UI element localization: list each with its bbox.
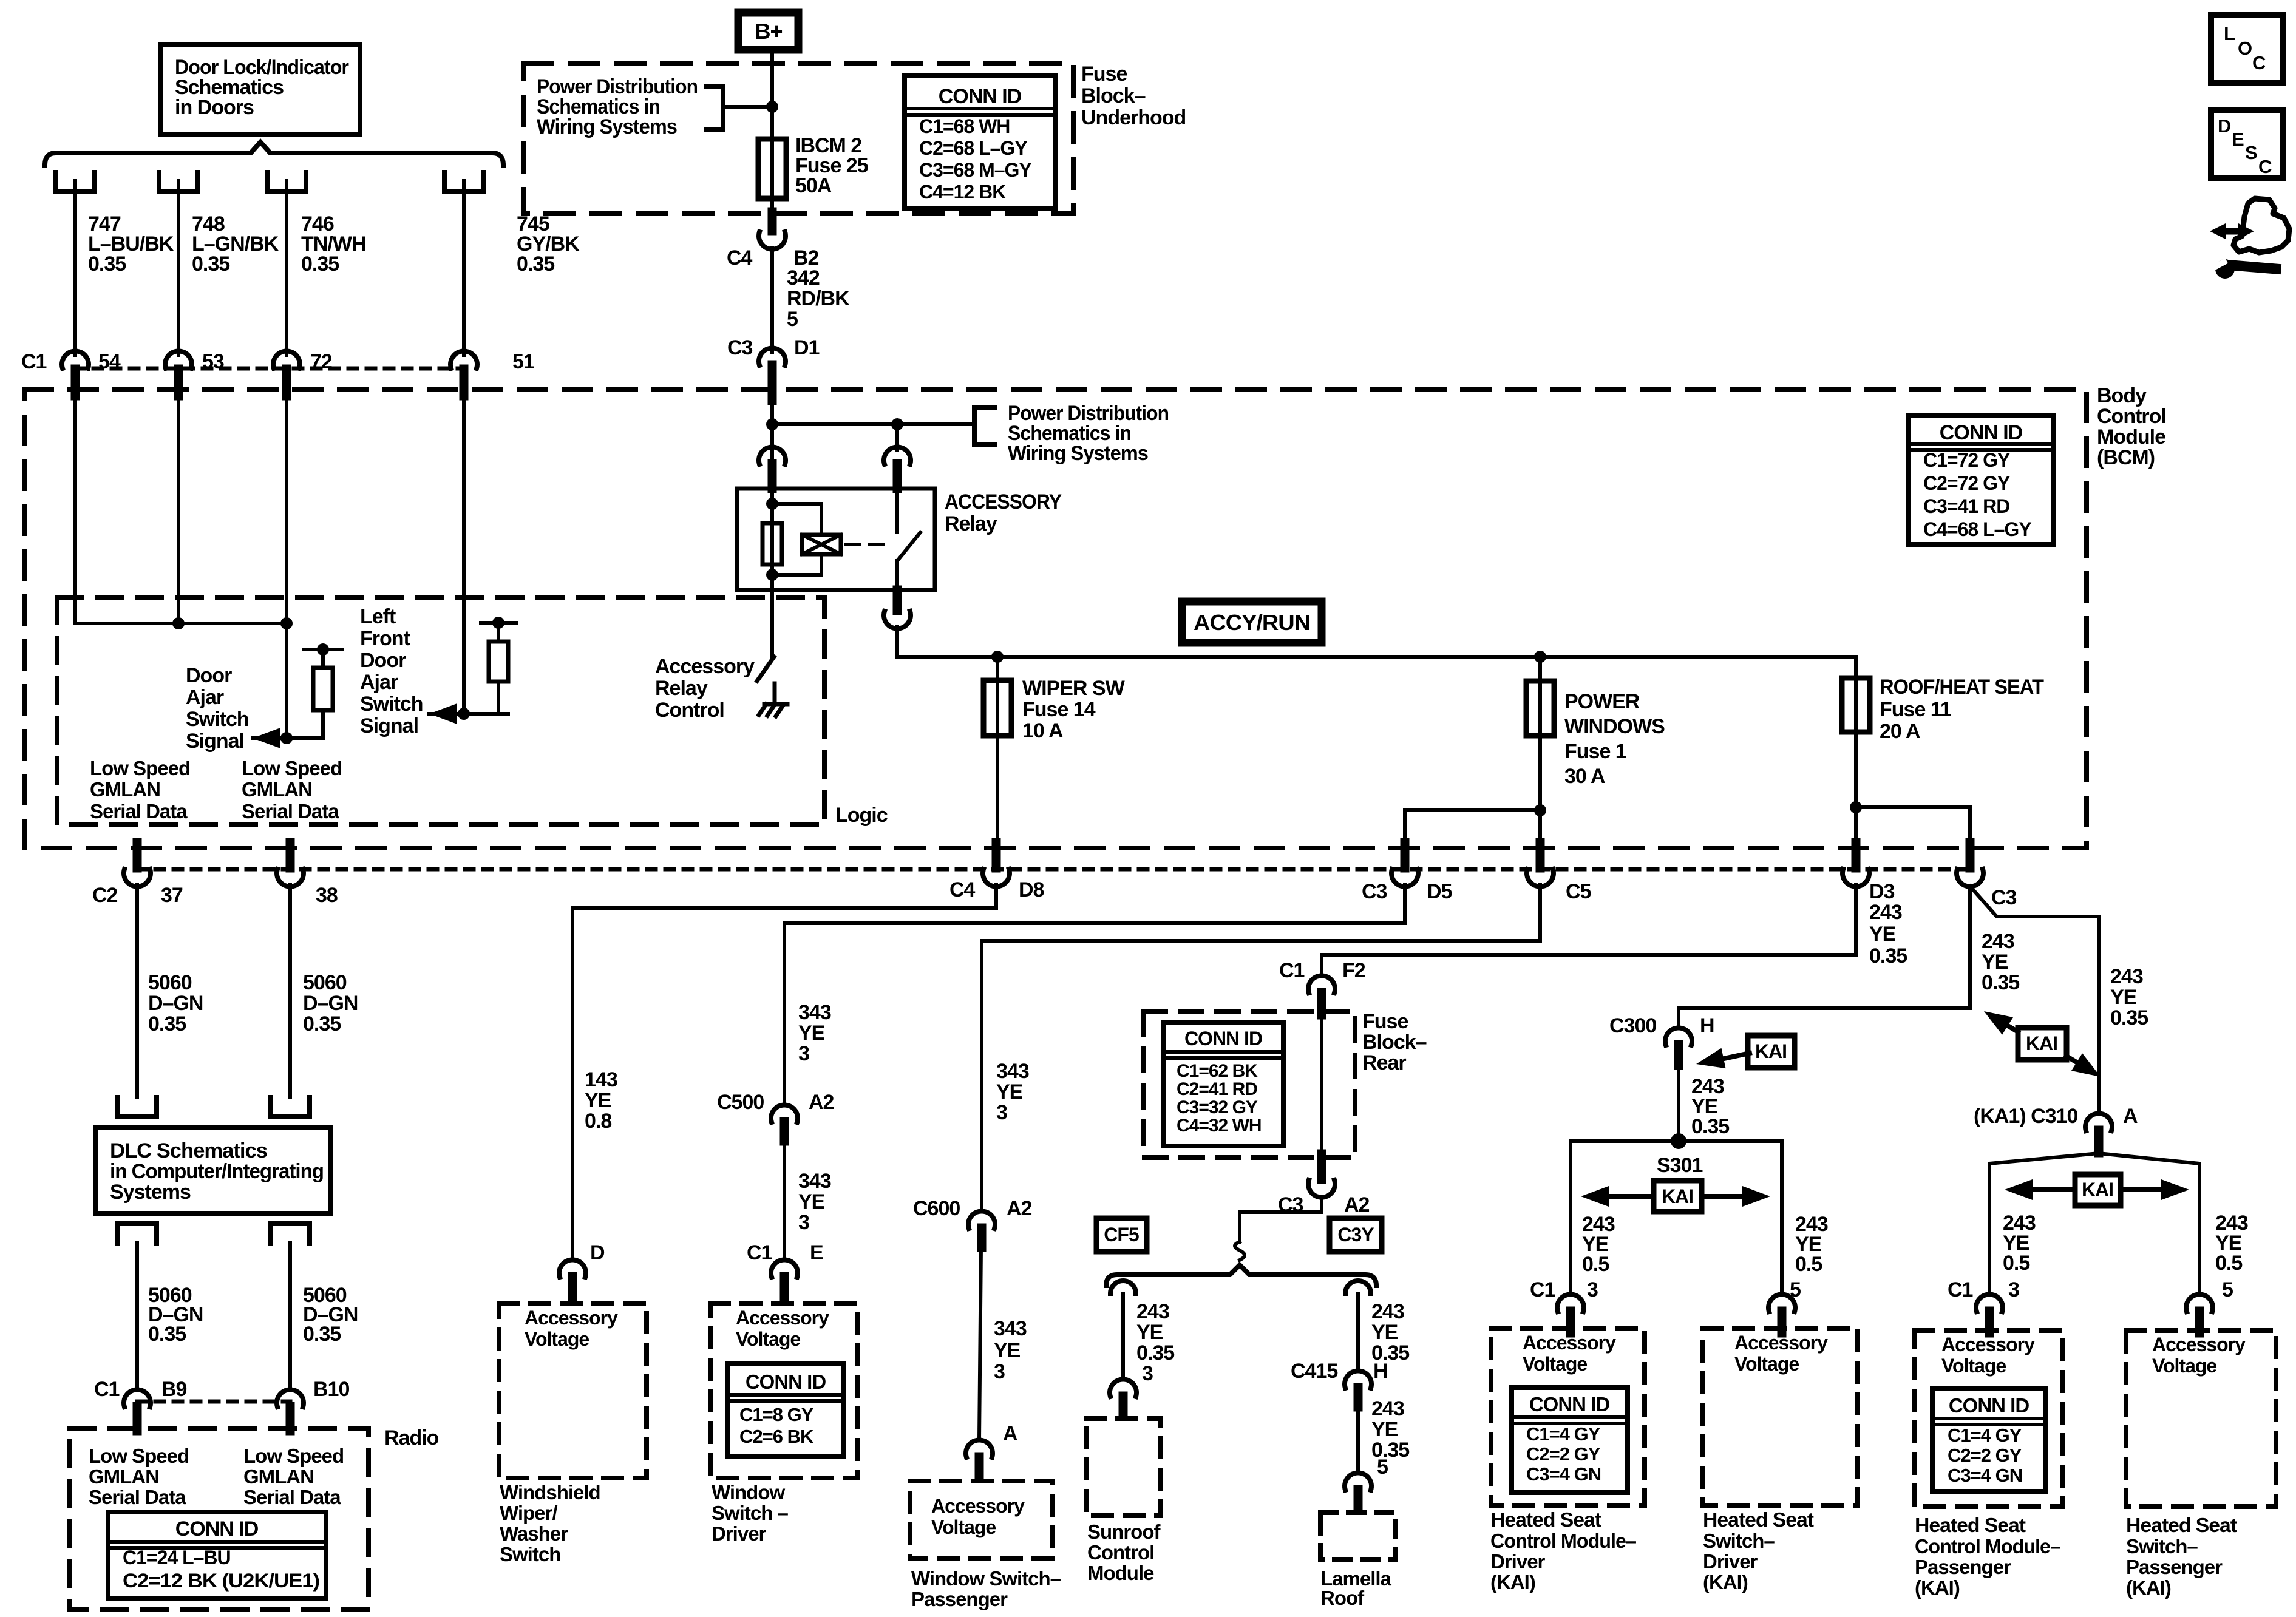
relay coil solenoid box <box>802 535 841 554</box>
svg-text:Left: Left <box>360 605 396 628</box>
svg-text:Serial Data: Serial Data <box>90 800 188 822</box>
bracket to Power Distribution note (top) <box>706 86 723 129</box>
svg-text:Switch: Switch <box>360 693 423 716</box>
connector stub x=3245 <box>1966 842 1975 868</box>
connector relay switch input <box>884 447 911 464</box>
svg-text:F2: F2 <box>1342 959 1365 982</box>
connector arc x=2537 <box>1527 869 1554 887</box>
svg-text:Low Speed: Low Speed <box>242 757 342 779</box>
connector C1 pin 51 <box>450 351 477 368</box>
svg-text:10 A: 10 A <box>1022 719 1063 742</box>
terminal DLC in left <box>118 1097 157 1117</box>
svg-text:C5: C5 <box>1566 880 1591 903</box>
svg-text:C3=32 GY: C3=32 GY <box>1177 1097 1258 1117</box>
svg-text:243: 243 <box>1371 1397 1404 1420</box>
svg-text:A2: A2 <box>1007 1197 1032 1220</box>
svg-text:C3Y: C3Y <box>1337 1224 1374 1246</box>
svg-text:0.35: 0.35 <box>303 1323 341 1346</box>
ACCY/RUN net label box <box>1182 602 1322 643</box>
wire down to relay switch input connector <box>895 424 899 450</box>
connector window switch passenger pin A <box>966 1440 993 1457</box>
svg-text:YE: YE <box>994 1339 1021 1362</box>
svg-text:D–GN: D–GN <box>303 992 358 1015</box>
power symbol B+ <box>738 13 798 50</box>
svg-text:C1: C1 <box>94 1378 120 1401</box>
junction dot branch to bracket 2 <box>766 418 778 430</box>
net label C3Y <box>1330 1218 1382 1252</box>
svg-text:Underhood: Underhood <box>1081 106 1186 129</box>
connector fuse block rear pin A2 <box>1317 1154 1326 1179</box>
connector stub x=1641 <box>992 842 1001 868</box>
svg-text:Voltage: Voltage <box>931 1516 996 1538</box>
svg-text:C415: C415 <box>1291 1360 1337 1383</box>
svg-text:CONN ID: CONN ID <box>1949 1394 2029 1417</box>
junction dot C3 branch <box>1850 801 1862 813</box>
wire accessory relay control <box>770 590 774 657</box>
svg-text:Block–: Block– <box>1081 84 1146 107</box>
svg-text:C1: C1 <box>1279 959 1305 982</box>
svg-text:WIPER SW: WIPER SW <box>1022 677 1126 700</box>
wire GMLAN pin 37 <box>135 885 139 1097</box>
brace over sunroof and lamella wires <box>1106 1265 1376 1286</box>
connector stub x=478 <box>286 842 295 868</box>
svg-text:343: 343 <box>996 1060 1029 1083</box>
svg-text:Low Speed: Low Speed <box>243 1445 344 1467</box>
connector heated seat switch passenger pin 5 <box>2186 1294 2213 1312</box>
svg-text:KAI: KAI <box>1755 1040 1787 1062</box>
svg-text:Accessory: Accessory <box>525 1307 618 1329</box>
connector arc x=2314 <box>1391 869 1418 887</box>
svg-text:Logic: Logic <box>835 804 888 827</box>
Fuse Block-Underhood dashed box <box>524 63 1073 214</box>
svg-text:C: C <box>2252 52 2266 73</box>
svg-text:B+: B+ <box>755 19 782 44</box>
svg-text:C4=12 BK: C4=12 BK <box>919 181 1006 203</box>
wire 747 L-BU/BK <box>73 181 77 355</box>
svg-text:KAI: KAI <box>2082 1179 2113 1201</box>
svg-text:C3=68 M–GY: C3=68 M–GY <box>919 159 1031 181</box>
svg-text:D1: D1 <box>794 336 820 359</box>
svg-text:Door: Door <box>360 649 406 672</box>
svg-text:(KAI): (KAI) <box>1915 1576 1960 1599</box>
svg-text:Passenger: Passenger <box>2126 1556 2223 1578</box>
svg-text:5: 5 <box>2222 1278 2233 1301</box>
svg-text:Body: Body <box>2097 384 2147 407</box>
svg-text:CONN ID: CONN ID <box>1940 421 2023 444</box>
svg-text:C1: C1 <box>21 350 47 373</box>
Fuse Block-Rear dashed box <box>1144 1011 1355 1158</box>
svg-text:Accessory: Accessory <box>931 1495 1025 1517</box>
connector arc x=3057 <box>1843 869 1869 887</box>
svg-text:Passenger: Passenger <box>1915 1556 2011 1578</box>
svg-text:D: D <box>2218 115 2231 137</box>
wire 748 inside BCM <box>177 401 180 623</box>
net label KAI passenger <box>2005 1175 2189 1205</box>
svg-text:CONN ID: CONN ID <box>1184 1028 1262 1049</box>
svg-text:Radio: Radio <box>384 1426 439 1449</box>
svg-text:YE: YE <box>798 1190 825 1213</box>
connector stub x=2537 <box>1536 842 1545 868</box>
svg-text:Control: Control <box>2097 405 2166 428</box>
splice S301 <box>1671 1133 1686 1149</box>
svg-text:Front: Front <box>360 627 410 650</box>
wire 746 inside BCM <box>285 401 288 738</box>
svg-text:30 A: 30 A <box>1564 765 1605 788</box>
relay mechanical link dashed <box>846 543 885 546</box>
CONN ID table BCM <box>1909 415 2054 544</box>
svg-text:CONN ID: CONN ID <box>746 1371 826 1393</box>
svg-text:Module: Module <box>2097 425 2165 449</box>
svg-text:D3: D3 <box>1869 880 1895 903</box>
connector arc x=226 <box>124 869 151 887</box>
terminal DLC in right <box>271 1097 310 1117</box>
svg-text:Accessory: Accessory <box>2152 1334 2246 1355</box>
terminal DLC out left <box>118 1224 157 1243</box>
svg-text:243: 243 <box>1371 1300 1404 1323</box>
relay ACCESSORY Relay box <box>737 489 935 590</box>
wire 343 YE C600 to passenger switch <box>979 1247 981 1439</box>
svg-text:C2=68 L–GY: C2=68 L–GY <box>919 137 1027 159</box>
svg-text:0.35: 0.35 <box>301 253 339 276</box>
wire branch to relay switch input <box>772 422 974 426</box>
svg-text:B9: B9 <box>161 1378 187 1401</box>
wire 243 YE C300 to S301 <box>1677 1065 1680 1141</box>
wire 343 YE from D5 <box>784 885 1405 1104</box>
connector radio pin B9 <box>124 1389 151 1407</box>
svg-text:S: S <box>2245 142 2257 163</box>
svg-text:Voltage: Voltage <box>2152 1355 2216 1377</box>
reference box DLC Schematics <box>96 1128 331 1213</box>
wire 243 YE to C415 <box>1356 1293 1360 1370</box>
svg-text:O: O <box>2238 38 2252 59</box>
svg-text:343: 343 <box>994 1317 1027 1340</box>
wire relay output to ACCY/RUN bus <box>897 627 1856 657</box>
svg-text:C: C <box>2258 156 2272 177</box>
accessory relay control switch blade <box>757 657 774 681</box>
svg-text:Driver: Driver <box>1703 1550 1758 1573</box>
svg-text:C3: C3 <box>727 336 753 359</box>
svg-text:YE: YE <box>996 1080 1023 1103</box>
fuse WIPER SW Fuse 14 10A <box>996 657 999 866</box>
svg-text:C500: C500 <box>717 1091 764 1114</box>
svg-text:C2: C2 <box>92 884 118 907</box>
svg-text:RD/BK: RD/BK <box>787 287 850 310</box>
svg-text:Wiring Systems: Wiring Systems <box>1008 442 1148 465</box>
svg-text:Control: Control <box>655 699 724 722</box>
svg-text:343: 343 <box>798 1001 831 1024</box>
svg-text:Voltage: Voltage <box>525 1328 589 1350</box>
connector C3 pin D1 <box>759 348 786 365</box>
svg-text:3: 3 <box>798 1042 809 1065</box>
connector C1 pin 53 <box>165 351 192 368</box>
connector C300 pin H <box>1665 1028 1692 1045</box>
svg-text:Switch–: Switch– <box>2126 1535 2198 1558</box>
svg-text:342: 342 <box>787 266 820 290</box>
svg-text:3: 3 <box>2008 1278 2019 1301</box>
svg-text:Ajar: Ajar <box>360 671 398 694</box>
svg-text:GMLAN: GMLAN <box>242 778 312 801</box>
door ajar pull-up resistor <box>304 643 342 738</box>
svg-text:C600: C600 <box>913 1197 960 1220</box>
junction dot power windows fuse <box>1534 651 1546 663</box>
svg-text:C300: C300 <box>1609 1014 1656 1037</box>
junction dot D5 branch <box>1534 804 1546 816</box>
junction dot wiper fuse <box>991 651 1004 663</box>
svg-text:(KAI): (KAI) <box>2126 1576 2171 1599</box>
svg-text:0.5: 0.5 <box>2215 1252 2242 1275</box>
svg-text:37: 37 <box>161 884 183 907</box>
svg-text:Accessory: Accessory <box>1734 1332 1828 1354</box>
svg-text:Roof: Roof <box>1320 1587 1365 1609</box>
svg-text:C3=41 RD: C3=41 RD <box>1923 495 2009 517</box>
svg-text:Low Speed: Low Speed <box>89 1445 189 1467</box>
svg-text:0.35: 0.35 <box>2110 1006 2148 1029</box>
svg-text:GMLAN: GMLAN <box>89 1465 159 1488</box>
svg-text:C1: C1 <box>747 1241 772 1264</box>
svg-text:38: 38 <box>316 884 338 907</box>
svg-text:Wiper/: Wiper/ <box>500 1502 557 1524</box>
legend box LOC <box>2211 15 2283 83</box>
Heated Seat Control Module Driver dashed box <box>1491 1329 1645 1505</box>
wire radio B10 <box>288 1243 292 1389</box>
svg-text:Voltage: Voltage <box>1941 1355 2006 1377</box>
svg-text:Control: Control <box>1087 1541 1154 1564</box>
Sunroof Control Module dashed box <box>1086 1419 1161 1516</box>
svg-text:C2=2 GY: C2=2 GY <box>1526 1443 1601 1465</box>
svg-text:5: 5 <box>787 308 798 331</box>
svg-text:Signal: Signal <box>186 730 244 753</box>
svg-text:DLC Schematics: DLC Schematics <box>110 1139 267 1162</box>
svg-text:Windshield: Windshield <box>500 1481 600 1503</box>
svg-text:C3=4 GN: C3=4 GN <box>1948 1465 2022 1486</box>
svg-text:Accessory: Accessory <box>1523 1332 1616 1354</box>
svg-text:Serial Data: Serial Data <box>89 1486 186 1508</box>
Lamella Roof dashed box <box>1320 1513 1396 1559</box>
svg-text:51: 51 <box>512 350 534 373</box>
svg-text:CONN ID: CONN ID <box>939 85 1022 108</box>
svg-text:C1=4 GY: C1=4 GY <box>1526 1423 1601 1445</box>
svg-text:Serial Data: Serial Data <box>242 800 339 822</box>
net label KAI near C310 <box>1978 1003 2106 1086</box>
connector heated seat module driver pin C1/3 <box>1557 1294 1584 1312</box>
connector lamella pin 5 <box>1345 1473 1371 1490</box>
svg-text:(KAI): (KAI) <box>1703 1571 1748 1593</box>
svg-text:YE: YE <box>1371 1321 1398 1344</box>
svg-text:C2=41 RD: C2=41 RD <box>1177 1079 1257 1099</box>
svg-text:(KAI): (KAI) <box>1490 1571 1535 1593</box>
svg-text:C1: C1 <box>1530 1278 1555 1301</box>
svg-text:YE: YE <box>1982 951 2008 974</box>
wire 343 YE C500 to switch <box>783 1141 786 1259</box>
relay switch blade <box>895 489 899 532</box>
svg-text:C2=6 BK: C2=6 BK <box>739 1426 814 1447</box>
connector C415 pin H <box>1345 1371 1371 1388</box>
svg-text:H: H <box>1373 1360 1388 1383</box>
junction dot relay switch branch <box>891 418 903 430</box>
net label KAI at C300 <box>1694 1036 1795 1074</box>
svg-text:Switch: Switch <box>186 708 249 731</box>
svg-text:Signal: Signal <box>360 714 418 737</box>
svg-text:POWER: POWER <box>1564 690 1640 713</box>
svg-text:343: 343 <box>798 1170 831 1193</box>
svg-text:GMLAN: GMLAN <box>243 1465 314 1488</box>
svg-text:0.35: 0.35 <box>148 1012 186 1036</box>
svg-text:L: L <box>2224 23 2235 44</box>
svg-text:5060: 5060 <box>303 971 347 994</box>
Heated Seat Switch Passenger dashed box <box>2126 1331 2276 1507</box>
Heated Seat Control Module Passenger dashed box <box>1915 1331 2062 1507</box>
svg-text:50A: 50A <box>795 174 832 197</box>
connector relay output <box>893 590 902 611</box>
svg-text:Voltage: Voltage <box>1523 1353 1587 1375</box>
terminal pin 747 <box>56 172 95 192</box>
svg-text:Washer: Washer <box>500 1522 568 1545</box>
svg-text:0.35: 0.35 <box>1982 971 2019 994</box>
svg-text:C4=68 L–GY: C4=68 L–GY <box>1923 518 2031 540</box>
svg-text:C1=24 L–BU: C1=24 L–BU <box>123 1547 231 1568</box>
wire 143 YE from D8 <box>572 885 996 1259</box>
connector C1 pin 54 <box>62 351 89 368</box>
svg-text:CONN ID: CONN ID <box>175 1517 259 1541</box>
svg-text:in Doors: in Doors <box>175 96 254 119</box>
svg-text:Relay: Relay <box>655 677 708 700</box>
svg-text:KAI: KAI <box>2026 1032 2057 1054</box>
svg-text:C1=72 GY: C1=72 GY <box>1923 449 2010 471</box>
svg-text:Heated Seat: Heated Seat <box>1490 1508 1601 1531</box>
svg-text:C3: C3 <box>1362 880 1387 903</box>
legend icon: arrow hand wrench <box>2210 198 2289 279</box>
svg-text:C4: C4 <box>727 246 753 269</box>
svg-text:Voltage: Voltage <box>736 1328 800 1350</box>
svg-text:0.35: 0.35 <box>1691 1115 1729 1138</box>
svg-text:Window: Window <box>712 1481 785 1503</box>
svg-text:in Computer/Integrating: in Computer/Integrating <box>110 1160 324 1183</box>
wire C310 split to passenger seats <box>1989 1153 2199 1293</box>
svg-text:YE: YE <box>1371 1418 1398 1441</box>
relay coil resistor <box>763 523 782 564</box>
wire 747 inside BCM <box>75 401 287 623</box>
svg-text:A: A <box>2123 1105 2138 1128</box>
svg-text:A2: A2 <box>809 1091 834 1114</box>
svg-text:Module: Module <box>1087 1562 1154 1584</box>
terminal pin 745 <box>444 172 483 192</box>
ground symbol <box>759 704 787 716</box>
svg-text:143: 143 <box>585 1068 617 1091</box>
svg-text:Low Speed: Low Speed <box>90 757 190 779</box>
left front door ajar arrow <box>429 703 457 724</box>
radio connector dotted line <box>137 1400 290 1404</box>
wire hook sunroof <box>1110 1281 1136 1293</box>
connector C1 pin 72 <box>273 351 300 368</box>
svg-text:YE: YE <box>585 1089 611 1112</box>
wire 243 YE C3 to C300 <box>1679 886 1970 1027</box>
junction dot at B+ wire <box>766 101 778 113</box>
svg-text:Ajar: Ajar <box>186 686 224 709</box>
svg-text:243: 243 <box>2110 965 2143 988</box>
svg-text:5060: 5060 <box>148 971 192 994</box>
connector heated seat module passenger pin C1/3 <box>1976 1294 2003 1312</box>
svg-text:ACCESSORY: ACCESSORY <box>945 490 1062 514</box>
Windshield switch Accessory Voltage dashed box <box>499 1303 647 1478</box>
svg-text:C2=12 BK (U2K/UE1): C2=12 BK (U2K/UE1) <box>123 1570 319 1592</box>
junction dot left front door ajar <box>458 708 470 720</box>
svg-text:Fuse 11: Fuse 11 <box>1880 698 1951 721</box>
reference box: Door Lock/Indicator Schematics in Doors <box>160 45 360 134</box>
wire through fuse block rear <box>1320 1015 1323 1154</box>
fuse ROOF/HEAT SEAT Fuse 11 20A <box>1854 657 1858 866</box>
wire hook lamella <box>1345 1281 1371 1293</box>
connector C310 pin A <box>2085 1113 2112 1131</box>
door ajar arrow <box>253 728 280 748</box>
svg-text:H: H <box>1700 1014 1714 1037</box>
svg-text:C1=8 GY: C1=8 GY <box>739 1404 814 1425</box>
svg-text:3: 3 <box>994 1360 1005 1383</box>
wire 343 YE from C5 <box>982 885 1540 1210</box>
svg-text:YE: YE <box>2110 986 2137 1009</box>
svg-text:243: 243 <box>1869 901 1902 924</box>
junction dot 746 bus <box>280 617 293 629</box>
wire GMLAN pin 38 <box>288 885 292 1097</box>
brace under Door Lock box <box>45 142 503 165</box>
wire B+ to fuse block <box>770 53 774 141</box>
svg-text:Control Module–: Control Module– <box>1915 1535 2061 1558</box>
svg-text:C1=62 BK: C1=62 BK <box>1177 1061 1258 1081</box>
connector stub x=226 <box>133 842 142 868</box>
svg-text:C4: C4 <box>949 878 976 901</box>
Logic dashed box <box>57 598 824 824</box>
svg-text:Accessory: Accessory <box>736 1307 829 1329</box>
svg-text:Window Switch–: Window Switch– <box>911 1567 1061 1590</box>
svg-text:WINDOWS: WINDOWS <box>1564 715 1665 738</box>
svg-text:YE: YE <box>1869 923 1896 946</box>
connector C500 pin A2 <box>771 1105 798 1122</box>
CONN ID table Radio <box>108 1512 326 1598</box>
svg-text:ACCY/RUN: ACCY/RUN <box>1194 610 1310 635</box>
wire D1 into BCM <box>770 384 774 489</box>
svg-text:CF5: CF5 <box>1104 1224 1139 1246</box>
svg-text:20 A: 20 A <box>1880 720 1920 743</box>
Body Control Module BCM dashed box <box>25 389 2087 848</box>
svg-text:C3=4 GN: C3=4 GN <box>1526 1463 1601 1485</box>
svg-text:C2=72 GY: C2=72 GY <box>1923 472 2010 494</box>
svg-text:Switch: Switch <box>500 1543 560 1565</box>
svg-text:Accessory: Accessory <box>1941 1334 2035 1355</box>
svg-text:YE: YE <box>1136 1321 1163 1344</box>
svg-text:A: A <box>1003 1422 1017 1445</box>
net label KAI at S301 <box>1581 1181 1770 1212</box>
svg-text:D: D <box>590 1241 605 1264</box>
wire S301 split <box>1571 1141 1782 1293</box>
net label CF5 <box>1096 1218 1147 1252</box>
svg-text:0.35: 0.35 <box>1136 1341 1174 1364</box>
connector stub x=3057 <box>1852 842 1861 868</box>
svg-text:Rear: Rear <box>1362 1051 1406 1074</box>
svg-text:C3: C3 <box>1991 886 2017 909</box>
svg-text:Fuse 14: Fuse 14 <box>1022 698 1096 721</box>
CONN ID table hs module driver <box>1512 1388 1628 1493</box>
svg-text:243: 243 <box>1136 1300 1169 1323</box>
connector C1 dotted line <box>75 367 464 371</box>
svg-text:0.35: 0.35 <box>148 1323 186 1346</box>
wire 243 YE to sunroof <box>1121 1293 1125 1378</box>
connector radio pin B10 <box>277 1389 304 1407</box>
wire 745 inside BCM <box>462 401 466 714</box>
svg-text:Serial Data: Serial Data <box>243 1486 341 1508</box>
terminal pin 746 <box>267 172 306 192</box>
connector relay coil input <box>759 447 786 464</box>
svg-text:0.35: 0.35 <box>517 253 554 276</box>
svg-text:3: 3 <box>798 1211 809 1234</box>
